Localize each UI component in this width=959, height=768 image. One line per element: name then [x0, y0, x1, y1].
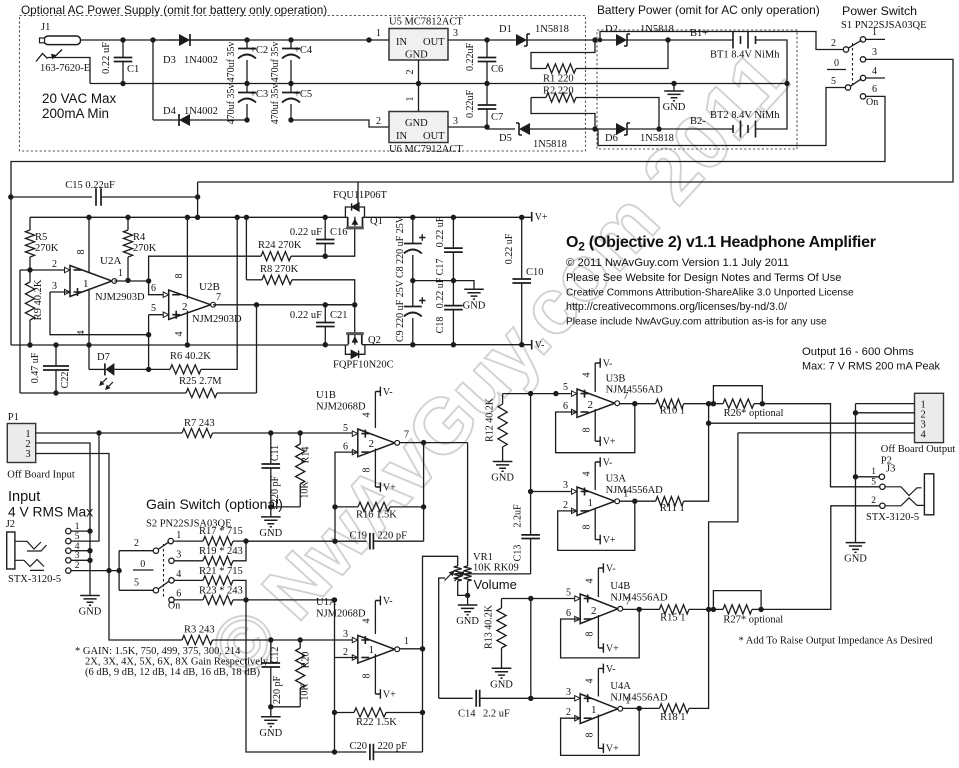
- battery BT2 8.4V NiMh: [659, 128, 733, 130]
- svg-text:+C2: +C2: [250, 45, 268, 56]
- ground R13: [492, 668, 512, 678]
- svg-text:C16: C16: [330, 227, 348, 238]
- wire P2 pin4 right out: [738, 432, 915, 434]
- svg-text:5: 5: [563, 382, 568, 393]
- svg-text:GND: GND: [405, 50, 428, 61]
- svg-text:0.22 uF: 0.22 uF: [101, 42, 112, 74]
- svg-text:Q1: Q1: [370, 216, 383, 227]
- resistor R6 40.2K: [149, 368, 170, 370]
- svg-text:D5: D5: [499, 133, 512, 144]
- resistor R22 1.5K: [335, 712, 355, 714]
- svg-text:5: 5: [831, 76, 836, 87]
- resistor R17 715: [173, 540, 203, 542]
- node R6 top: [235, 215, 240, 220]
- svg-text:GND: GND: [844, 554, 867, 565]
- svg-text:4: 4: [362, 413, 373, 418]
- svg-text:1: 1: [118, 268, 123, 279]
- wire U2A pin2: [20, 269, 64, 271]
- svg-text:© 2011 NwAvGuy.com Version 1.1: © 2011 NwAvGuy.com Version 1.1 July 2011: [566, 257, 789, 269]
- svg-text:220 pF: 220 pF: [270, 476, 281, 505]
- node C18 bottom: [451, 342, 456, 347]
- svg-text:200mA Min: 200mA Min: [42, 106, 109, 121]
- svg-text:3: 3: [453, 28, 458, 39]
- svg-text:C18: C18: [435, 317, 446, 334]
- resistor R10 1: [656, 399, 684, 408]
- node C2 top: [244, 37, 249, 42]
- svg-text:1: 1: [623, 489, 628, 500]
- node gain left join: [243, 538, 248, 543]
- svg-text:C20: C20: [349, 741, 367, 752]
- svg-text:R22 1.5K: R22 1.5K: [356, 717, 397, 728]
- potentiometer VR1 right section: [464, 566, 472, 581]
- wire R27 to J3 pin2: [761, 506, 880, 610]
- svg-text:4: 4: [174, 332, 185, 337]
- J3 pin2 contact: [880, 503, 885, 508]
- ground mid supply: [464, 289, 484, 299]
- svg-text:V+: V+: [603, 437, 616, 448]
- svg-text:1: 1: [871, 467, 876, 477]
- svg-text:7: 7: [404, 430, 409, 441]
- wire P2 pin3 left out: [709, 422, 915, 424]
- svg-text:0.22 uF: 0.22 uF: [435, 277, 446, 308]
- node C1 top: [120, 37, 125, 42]
- node battery right: [784, 81, 789, 86]
- svg-text:20 VAC Max: 20 VAC Max: [42, 91, 116, 106]
- U1B pin8 V+: [374, 449, 376, 488]
- svg-text:NJM4556AD: NJM4556AD: [610, 593, 668, 604]
- node x153 top: [150, 37, 155, 42]
- svg-text:GND: GND: [490, 679, 513, 690]
- wire to lower diode row: [152, 40, 154, 120]
- wire P2 pin4 jog to right out node: [709, 433, 738, 610]
- diode D1 1N5818: [487, 39, 516, 41]
- svg-text:V+: V+: [603, 535, 616, 546]
- wire V+ raw to rail: [197, 182, 199, 217]
- mid ground rail: [413, 281, 474, 290]
- svg-text:8: 8: [582, 525, 593, 530]
- svg-text:C15 0.22uF: C15 0.22uF: [65, 180, 115, 191]
- node B1+: [665, 37, 670, 42]
- capacitor C15 0.22uF: [11, 196, 92, 198]
- wire J1 sleeve: [48, 58, 91, 84]
- svg-text:OUT: OUT: [423, 37, 445, 48]
- svg-text:10K RK09: 10K RK09: [473, 563, 519, 574]
- resistor R16 1.5K: [335, 506, 358, 508]
- svg-text:Power Switch: Power Switch: [842, 4, 917, 18]
- S1 coupling dashes: [852, 43, 854, 85]
- wire P1 pin3: [36, 454, 109, 571]
- wire U2A output: [114, 280, 148, 282]
- wire P2 pin2 gnd: [856, 412, 915, 414]
- svg-text:R26* optional: R26* optional: [724, 408, 784, 419]
- svg-text:D2: D2: [605, 24, 618, 35]
- svg-text:C6: C6: [491, 64, 503, 75]
- S2 lever lower: [158, 581, 169, 589]
- svg-text:V-: V-: [383, 387, 393, 398]
- svg-text:C13: C13: [513, 545, 524, 562]
- wire AC return rail: [90, 83, 787, 85]
- node C8 top: [410, 215, 415, 220]
- node R8 top: [244, 215, 249, 220]
- node U1A out: [420, 646, 425, 651]
- svg-text:4: 4: [582, 472, 593, 477]
- switch S2 pin3 contact: [169, 558, 174, 563]
- svg-text:R5: R5: [35, 232, 47, 243]
- svg-text:Off Board Input: Off Board Input: [7, 470, 75, 481]
- S1 pin4 stub: [866, 77, 885, 79]
- svg-text:OUT: OUT: [423, 131, 445, 142]
- svg-text:4: 4: [582, 373, 593, 378]
- svg-text:470uf 35v: 470uf 35v: [226, 84, 237, 125]
- svg-text:GND: GND: [456, 616, 479, 627]
- wire U4A output: [623, 707, 660, 709]
- svg-text:5: 5: [343, 423, 348, 434]
- resistor R3 243: [182, 635, 213, 644]
- svg-text:1N5818: 1N5818: [533, 139, 567, 150]
- node U2A pin2: [27, 267, 32, 272]
- svg-text:C14: C14: [458, 709, 476, 720]
- svg-text:GND: GND: [491, 473, 514, 484]
- svg-text:C10: C10: [526, 267, 544, 278]
- D7 LED arrows: [101, 378, 108, 385]
- svg-text:3: 3: [872, 47, 877, 58]
- U3B pin8 V+: [594, 409, 596, 441]
- svg-text:R2 220: R2 220: [543, 86, 574, 97]
- wire U1A out to pot: [423, 556, 458, 649]
- resistor R12 40.2K: [503, 393, 531, 395]
- svg-text:NJM2903D: NJM2903D: [192, 314, 242, 325]
- node gain right join: [243, 597, 248, 602]
- wire U2B output pin7: [213, 304, 355, 306]
- svg-text:2: 2: [591, 605, 597, 617]
- svg-text:http://creativecommons.org/lic: http://creativecommons.org/licenses/by-n…: [566, 301, 787, 313]
- svg-text:8: 8: [585, 733, 596, 738]
- svg-text:STX-3120-5: STX-3120-5: [866, 512, 919, 523]
- resistor R25 2.7M: [20, 392, 186, 394]
- node R16 left: [332, 504, 337, 509]
- node U4B out: [637, 607, 642, 612]
- capacitor C4 470uf 35v: [290, 40, 292, 48]
- svg-text:8: 8: [585, 632, 596, 637]
- svg-text:C8 220 uF 25V: C8 220 uF 25V: [395, 215, 406, 278]
- node U3B out: [632, 401, 637, 406]
- svg-text:7: 7: [625, 597, 630, 608]
- connector P1 off board input: [7, 424, 35, 463]
- resistor R2 220: [531, 97, 546, 99]
- resistor R4 270K: [127, 217, 129, 230]
- svg-text:B1+: B1+: [690, 28, 708, 39]
- battery power dashed box: [597, 30, 797, 149]
- svg-text:3: 3: [25, 449, 30, 460]
- svg-text:10K: 10K: [300, 481, 311, 499]
- svg-text:2: 2: [831, 38, 836, 49]
- wire U2B pin5: [149, 314, 169, 316]
- svg-text:U4B: U4B: [610, 581, 630, 592]
- svg-text:1: 1: [83, 278, 89, 290]
- svg-text:C12: C12: [270, 647, 281, 664]
- node C21 top: [323, 302, 328, 307]
- terminal V-: [531, 340, 533, 350]
- op-amp U2B NJM2903D: [169, 290, 211, 319]
- svg-text:D4: D4: [163, 106, 177, 117]
- wire S1 pin6 to V- raw: [11, 96, 885, 345]
- wire U3A output: [620, 500, 656, 502]
- resistor R8 270K: [245, 217, 247, 279]
- node C14 right: [528, 696, 533, 701]
- svg-text:3: 3: [453, 116, 458, 127]
- wire U3B output: [620, 403, 656, 405]
- wire P2 pin1 gnd: [856, 403, 915, 405]
- wire U1A fb column: [422, 649, 424, 752]
- svg-text:On: On: [168, 601, 180, 612]
- potentiometer VR1 left section: [454, 566, 462, 581]
- wire J2 pin5 to input node: [71, 433, 99, 541]
- node right out: [706, 607, 711, 612]
- diode D3 1N4002: [161, 39, 179, 41]
- svg-text:2: 2: [871, 496, 876, 506]
- wire C11 R14 join: [271, 506, 300, 508]
- wire fb column: [423, 443, 425, 542]
- svg-text:GND: GND: [405, 118, 428, 129]
- svg-text:R11 1: R11 1: [660, 503, 685, 514]
- ground R12: [493, 462, 513, 472]
- svg-text:C17: C17: [435, 259, 446, 276]
- svg-text:1: 1: [625, 696, 630, 707]
- svg-text:5: 5: [151, 303, 156, 314]
- U4A pin4 V-: [597, 668, 599, 696]
- svg-text:FQU11P06T: FQU11P06T: [333, 190, 387, 201]
- svg-text:GND: GND: [79, 607, 102, 618]
- svg-text:3: 3: [343, 629, 348, 640]
- node R25 right: [254, 302, 259, 307]
- capacitor C18 0.22uF: [452, 281, 454, 306]
- wire R26 out to J3 pin5: [762, 404, 879, 487]
- connector J1 power jack: [44, 36, 81, 45]
- svg-text:U4A: U4A: [610, 681, 631, 692]
- svg-text:Input: Input: [8, 489, 40, 505]
- U3A pin4 V-: [594, 462, 596, 490]
- svg-text:7: 7: [623, 391, 628, 402]
- V+ rail right of Q1: [363, 216, 532, 218]
- svg-text:+C3: +C3: [250, 89, 268, 100]
- svg-text:0.22 uF: 0.22 uF: [290, 310, 322, 321]
- svg-text:J2: J2: [6, 519, 15, 530]
- terminal V+: [531, 212, 533, 222]
- capacitor C10 0.22uF: [521, 217, 523, 279]
- svg-text:V-: V-: [603, 358, 613, 369]
- U2A pin 4 supply: [88, 289, 90, 345]
- svg-text:R3 243: R3 243: [184, 625, 215, 636]
- resistor R18 1: [659, 704, 689, 713]
- svg-text:* Add To Raise Output Impedan: * Add To Raise Output Impedance As Desir…: [739, 636, 934, 647]
- svg-text:3: 3: [566, 687, 571, 698]
- svg-text:5: 5: [871, 478, 876, 488]
- wire S2 common link: [118, 551, 120, 591]
- resistor R5 270K: [29, 217, 31, 230]
- node pin3 join: [146, 332, 151, 337]
- wire U2A pin3: [50, 291, 70, 293]
- node left out: [706, 401, 711, 406]
- wire D6 anode to switch pin5: [598, 88, 845, 146]
- svg-text:R15 1: R15 1: [660, 613, 685, 624]
- capacitor C2 470uf 35v: [246, 40, 248, 48]
- svg-text:1: 1: [404, 636, 409, 647]
- capacitor C7 0.22uF: [486, 84, 488, 106]
- svg-text:O2 (Objective 2) v1.1 Headpho: O2 (Objective 2) v1.1 Headphone Amplifie…: [566, 234, 876, 254]
- svg-text:6: 6: [566, 608, 571, 619]
- wire U2A out to U2B pin6: [149, 281, 169, 295]
- node C1 bottom: [120, 81, 125, 86]
- S2 coupling dashes: [163, 544, 165, 597]
- svg-text:R20: R20: [301, 652, 312, 669]
- node D5-D6: [592, 126, 597, 131]
- resistor R19 243: [174, 560, 203, 562]
- wire U1A output: [400, 648, 423, 650]
- switch S2 pin4 contact: [169, 578, 174, 583]
- svg-text:2: 2: [134, 538, 139, 549]
- svg-text:R14: R14: [301, 447, 312, 464]
- wire gain right join down: [246, 600, 335, 752]
- svg-text:R1 220: R1 220: [543, 74, 574, 85]
- V+ distribution rail: [30, 216, 348, 218]
- svg-text:2.2uF: 2.2uF: [513, 504, 524, 528]
- capacitor C8 220uF 25V: [412, 217, 414, 243]
- svg-text:8: 8: [582, 428, 593, 433]
- svg-text:2.2 uF: 2.2 uF: [483, 709, 510, 720]
- resistor R24 270K: [149, 256, 261, 280]
- svg-text:4: 4: [921, 430, 927, 441]
- svg-text:Please include NwAvGuy.com att: Please include NwAvGuy.com attribution a…: [566, 317, 827, 328]
- svg-text:V+: V+: [535, 212, 548, 223]
- U2B pin 8 supply: [185, 215, 190, 220]
- node R26 right: [760, 401, 765, 406]
- node C9 bottom: [410, 342, 415, 347]
- resistor R13 40.2K: [497, 608, 506, 648]
- node U4A out: [637, 706, 642, 711]
- ground input jack: [80, 596, 100, 606]
- switch S2 lower common contact: [153, 588, 158, 593]
- node C16 bottom: [323, 254, 328, 259]
- svg-text:R8 270K: R8 270K: [260, 264, 299, 275]
- capacitor C16 0.22uF: [324, 217, 326, 239]
- svg-text:220 pF: 220 pF: [378, 531, 408, 542]
- svg-text:6: 6: [151, 283, 156, 294]
- svg-text:R4: R4: [133, 232, 146, 243]
- wire J2 pin1 gnd: [71, 530, 90, 532]
- svg-text:1: 1: [369, 644, 375, 656]
- svg-text:R16 1.5K: R16 1.5K: [356, 510, 397, 521]
- svg-text:V-: V-: [535, 340, 545, 351]
- svg-text:BT1 8.4V NiMh: BT1 8.4V NiMh: [710, 50, 780, 61]
- U3A feedback loop: [558, 501, 635, 550]
- svg-text:GND: GND: [463, 300, 486, 311]
- svg-text:2: 2: [376, 116, 381, 127]
- capacitor C6 0.22uF: [486, 40, 488, 58]
- svg-text:163-7620-E: 163-7620-E: [40, 63, 90, 74]
- wire right input to R3: [109, 571, 173, 640]
- svg-text:S1 PN22SJSA03QE: S1 PN22SJSA03QE: [841, 20, 926, 31]
- svg-text:On: On: [866, 97, 878, 108]
- resistor R26 optional: [713, 386, 762, 404]
- J2 lever ring: [15, 560, 44, 571]
- wire C12 R20 join: [271, 706, 300, 708]
- svg-text:Volume: Volume: [474, 577, 517, 592]
- svg-text:470uf 35v: 470uf 35v: [270, 84, 281, 125]
- node P2 pin3 tee: [706, 421, 711, 426]
- resistor R14 10K: [298, 430, 303, 435]
- svg-text:220 pF: 220 pF: [272, 676, 283, 705]
- svg-text:J1: J1: [41, 22, 50, 33]
- diode D6 1N5818: [616, 123, 627, 135]
- node C17 top: [451, 215, 456, 220]
- Q2 mosfet body: [348, 335, 361, 344]
- U1B pin4 V-: [374, 392, 376, 429]
- wire S1 pin3 to V+ raw: [198, 59, 953, 182]
- node R27 right: [758, 607, 763, 612]
- svg-text:5: 5: [134, 578, 139, 589]
- svg-text:6: 6: [343, 442, 348, 453]
- J3 lever tip: [885, 487, 921, 496]
- J1 sleeve switch symbol: [36, 54, 48, 62]
- J3 jack body: [924, 474, 933, 515]
- svg-text:1N5818: 1N5818: [640, 133, 674, 144]
- switch S1 pin 5 contact: [845, 85, 850, 90]
- node C13 top: [528, 391, 533, 396]
- svg-text:R18 1: R18 1: [660, 712, 685, 723]
- ground C11 R14: [270, 507, 272, 517]
- svg-text:NJM2068D: NJM2068D: [316, 609, 366, 620]
- resistor R20 10K: [298, 637, 303, 642]
- svg-text:1N5818: 1N5818: [640, 24, 674, 35]
- svg-text:+C4: +C4: [294, 45, 313, 56]
- svg-text:V+: V+: [383, 689, 396, 700]
- svg-text:(6 dB, 9 dB, 12 dB, 14 dB, 16: (6 dB, 9 dB, 12 dB, 14 dB, 16 dB, 18 dB): [85, 667, 261, 678]
- wire gain row right to pin2 col: [246, 599, 335, 601]
- node R4 bottom: [125, 278, 130, 283]
- J3 lever ring: [885, 498, 924, 506]
- svg-text:6: 6: [176, 589, 181, 600]
- svg-text:8: 8: [76, 250, 87, 255]
- resistor R21 715: [174, 579, 203, 581]
- svg-text:U2A: U2A: [100, 255, 121, 267]
- wire U1B output: [400, 442, 468, 444]
- svg-text:FQPF10N20C: FQPF10N20C: [333, 360, 394, 371]
- S2 lever upper: [158, 542, 169, 550]
- wire Q2 gate line: [325, 304, 354, 306]
- svg-text:NJM4556AD: NJM4556AD: [606, 485, 664, 496]
- svg-text:8: 8: [362, 468, 373, 473]
- svg-text:10K: 10K: [300, 683, 311, 701]
- J3 pin1 contact: [879, 474, 884, 479]
- V- raw rail: [11, 344, 348, 346]
- J2 lever tip: [15, 541, 47, 551]
- svg-text:R17 * 715: R17 * 715: [199, 526, 243, 537]
- svg-text:0.22 uF: 0.22 uF: [504, 233, 515, 264]
- svg-text:V-: V-: [606, 563, 616, 574]
- regulator U6 MC7912ACT: [389, 112, 448, 143]
- svg-text:C7: C7: [491, 112, 503, 123]
- node C21 bottom: [323, 342, 328, 347]
- svg-text:V+: V+: [606, 744, 619, 755]
- svg-text:Please See Website for Design: Please See Website for Design Notes and …: [566, 272, 841, 284]
- U3B pin4 V-: [594, 363, 596, 392]
- wire C14 up to pin5 row: [530, 599, 532, 699]
- node C10 top: [519, 215, 524, 220]
- wire U1A feedback pin2: [335, 657, 358, 659]
- capacitor C9 220uF 25V: [412, 281, 414, 306]
- svg-text:8: 8: [362, 674, 373, 679]
- svg-text:R24 270K: R24 270K: [258, 240, 302, 251]
